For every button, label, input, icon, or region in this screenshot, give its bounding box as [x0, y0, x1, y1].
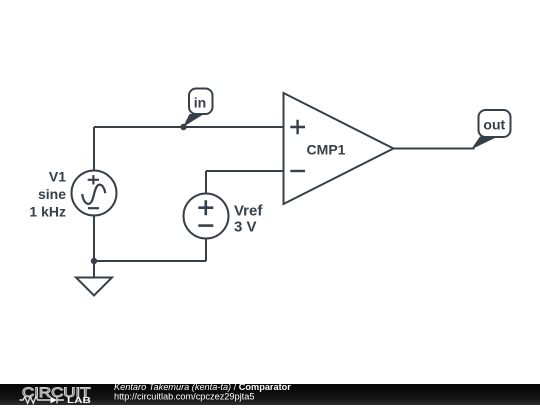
wire V1 top vertical	[93, 127, 95, 171]
svg-text:LAB: LAB	[67, 395, 91, 405]
svg-text:Vref: Vref	[234, 203, 263, 220]
V1 circle body	[72, 171, 117, 216]
node in rounded box	[189, 89, 213, 115]
wire Vref bottom vertical	[205, 238, 207, 261]
CMP1 non-inverting input + mark	[290, 120, 305, 135]
junction dot bottom net	[91, 258, 97, 264]
ground stem wire	[93, 261, 95, 278]
logo diode symbol	[51, 397, 58, 404]
svg-text:1 kHz: 1 kHz	[29, 204, 66, 220]
op-amp comparator CMP1	[284, 93, 394, 204]
svg-text:CMP1: CMP1	[307, 142, 346, 158]
wire V1 bottom vertical	[93, 215, 95, 261]
node in flag	[183, 89, 213, 128]
node in junction dot	[180, 124, 186, 130]
footer bar	[0, 384, 540, 405]
Vref minus polarity mark	[198, 224, 213, 227]
svg-text:sine: sine	[38, 186, 66, 202]
V1 plus polarity mark	[88, 175, 99, 184]
wire Vref top vertical	[205, 171, 207, 194]
wire comparator output	[394, 148, 475, 150]
Vref plus polarity mark	[198, 200, 213, 215]
svg-text:in: in	[194, 95, 206, 111]
V1 sine waveform glyph	[82, 185, 105, 204]
voltage source Vref	[184, 194, 229, 239]
CMP1 triangle body	[284, 93, 394, 204]
wire bottom net horizontal	[94, 260, 206, 262]
svg-text:http://circuitlab.com/cpczez29: http://circuitlab.com/cpczez29pjta5	[114, 391, 254, 401]
wire in-net horizontal from V1 to comparator + input	[94, 126, 284, 128]
Vref circle body	[184, 194, 229, 239]
ground symbol	[76, 278, 112, 296]
svg-text:3 V: 3 V	[234, 219, 257, 236]
V1 minus polarity mark	[88, 207, 99, 209]
node out flag	[471, 110, 511, 150]
node out rounded box	[479, 110, 511, 137]
node out pointer wedge	[471, 137, 498, 150]
voltage source V1	[72, 171, 117, 216]
svg-text:V1: V1	[49, 169, 66, 185]
CircuitLab logo	[20, 384, 92, 405]
svg-text:out: out	[483, 117, 505, 133]
logo resistor symbol	[20, 397, 45, 403]
wire Vref to comparator - input	[206, 170, 284, 172]
node in pointer wedge	[183, 114, 204, 127]
CMP1 inverting input - mark	[290, 170, 305, 172]
